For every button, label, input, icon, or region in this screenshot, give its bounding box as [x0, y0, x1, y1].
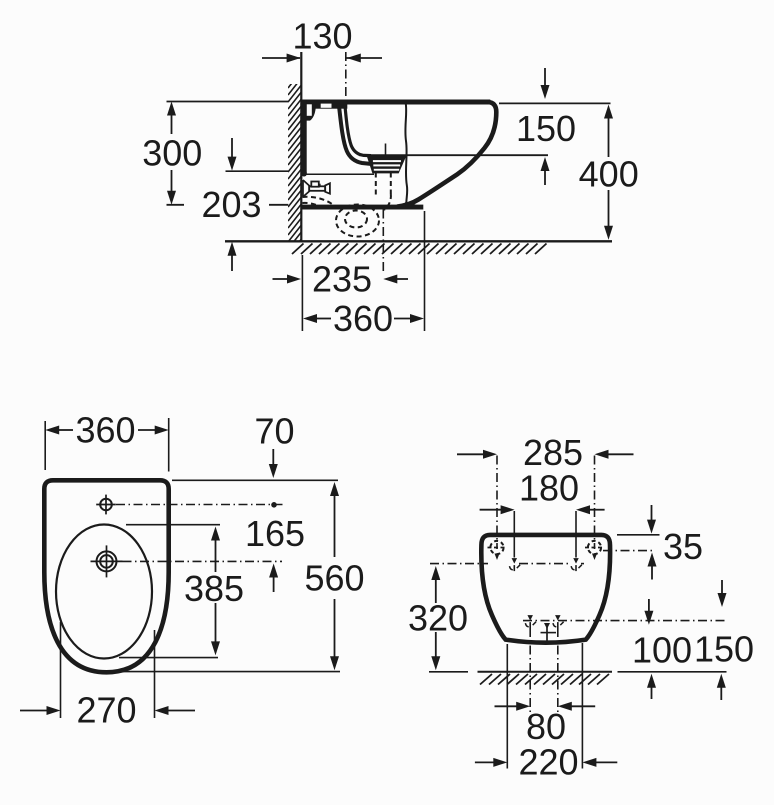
break line: [405, 102, 407, 207]
inner bowl wall: [339, 104, 371, 164]
dim 70 text: [254, 411, 294, 452]
plan dim 360: [45, 418, 169, 472]
svg-text:130: 130: [292, 16, 352, 57]
dim 285 text: [523, 432, 583, 473]
upper cross right: [571, 558, 582, 571]
ref line 35 top: [617, 534, 660, 536]
dim 100 text: [632, 630, 692, 671]
dim 300: [167, 102, 176, 205]
dim 360 side text: [333, 298, 393, 339]
dim 130 lines: [262, 52, 382, 99]
dim 35 arrows: [647, 505, 657, 580]
drain flange: [367, 155, 407, 173]
axis 285 right: [592, 456, 597, 561]
ext line bidet end: [424, 211, 426, 331]
svg-text:35: 35: [663, 526, 703, 567]
floor line: [225, 240, 612, 242]
inlet level line: [303, 173, 374, 175]
top ref line right: [499, 102, 611, 104]
plan inner bowl: [56, 525, 152, 659]
lower cross right: [553, 615, 564, 628]
dim 80 text: [526, 706, 566, 747]
dim 270 text: [76, 690, 136, 731]
axis 180 right: [575, 511, 577, 558]
lower centerline: [523, 620, 726, 622]
svg-text:165: 165: [245, 513, 305, 554]
inlet ref line: [226, 170, 289, 172]
svg-text:150: 150: [694, 629, 754, 670]
dim 150 text: [694, 629, 754, 670]
dim 235 text: [312, 259, 372, 300]
plan tap centerline: [123, 560, 283, 562]
back outline: [481, 535, 610, 643]
oval top ref: [126, 524, 220, 526]
drain centerline: [383, 144, 385, 272]
dim 320: [431, 566, 440, 670]
dim 203 arrows: [228, 138, 237, 271]
top level line: [167, 101, 289, 103]
dim 70 arrow: [269, 449, 278, 478]
svg-text:180: 180: [519, 468, 579, 509]
dim 150 arrows: [717, 580, 727, 700]
back axis lines: [530, 628, 558, 713]
dim 400 text: [579, 153, 639, 194]
axis 285 left: [495, 456, 500, 561]
floor hatch: [292, 244, 547, 255]
dim 80: [495, 702, 596, 711]
svg-text:360: 360: [333, 298, 393, 339]
back ext lines: [507, 643, 582, 769]
dim 220 text: [518, 742, 578, 783]
plan fixing hole: [96, 495, 116, 515]
svg-text:100: 100: [632, 630, 692, 671]
lower cross left: [525, 615, 536, 628]
plan hole centerline: [116, 504, 285, 506]
dim 150 top arrow: [541, 68, 550, 99]
dim 165 arrow: [269, 564, 278, 593]
dim 130 text: [292, 16, 352, 57]
upper cross centerline: [430, 563, 584, 565]
fixing hole right (back): [585, 541, 604, 554]
bottom level line: [167, 204, 289, 206]
fixing hole left (back): [488, 541, 507, 554]
svg-text:400: 400: [579, 153, 639, 194]
dim 400: [604, 105, 613, 240]
svg-text:270: 270: [76, 690, 136, 731]
water inlet valve: [303, 180, 330, 197]
dim 235: [273, 275, 409, 284]
ext line wall bottom: [301, 255, 303, 331]
drain P-trap (dashed): [303, 173, 391, 237]
svg-text:235: 235: [312, 259, 372, 300]
wall (hatched): [288, 72, 301, 257]
axis 35: [603, 550, 655, 552]
back floor hatch: [480, 674, 609, 685]
dim 150 up arrow: [541, 157, 550, 185]
svg-text:560: 560: [304, 558, 364, 599]
dim 180 text: [519, 468, 579, 509]
bottom center cross: [541, 623, 557, 641]
svg-text:70: 70: [254, 411, 294, 452]
wall face line: [300, 52, 302, 241]
drain level line: [359, 154, 548, 156]
axis 180 left: [513, 511, 515, 558]
dim 220: [475, 758, 617, 767]
plan top ref line: [172, 479, 338, 481]
dim 560: [330, 482, 339, 670]
dim 300 text: [142, 132, 202, 173]
back floor line: [429, 671, 727, 673]
dim 270 ext: [61, 622, 155, 718]
axis dot: [271, 502, 277, 508]
dim 180 lines: [480, 505, 605, 514]
oval bottom ref: [119, 657, 218, 659]
svg-text:320: 320: [408, 597, 468, 638]
dim 320 text: [408, 597, 468, 638]
plan outline: [44, 480, 168, 672]
dim 165 text: [245, 513, 305, 554]
plan tap hole: [91, 545, 123, 577]
svg-text:385: 385: [184, 568, 244, 609]
dim 385 text: [184, 568, 244, 609]
dim 270: [20, 706, 195, 715]
svg-text:220: 220: [518, 742, 578, 783]
fixing bracket detail: [301, 100, 347, 177]
svg-text:203: 203: [201, 184, 261, 225]
dim 100 arrows: [644, 599, 656, 699]
dim 360 side: [303, 314, 424, 323]
upper cross left: [510, 558, 521, 571]
svg-text:300: 300: [142, 132, 202, 173]
dim 150 text: [516, 108, 576, 149]
plan bottom ref: [119, 671, 340, 673]
svg-text:150: 150: [516, 108, 576, 149]
dim 560 text: [304, 558, 364, 599]
dim 35 text: [663, 526, 703, 567]
plan dim 360 text: [75, 410, 135, 451]
dim 203 text: [201, 184, 261, 225]
svg-text:360: 360: [75, 410, 135, 451]
dim 285 lines: [457, 450, 634, 459]
bidet body (side section): [301, 100, 496, 210]
dim 385: [211, 527, 220, 656]
